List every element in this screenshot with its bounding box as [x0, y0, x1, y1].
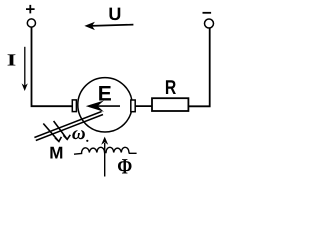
dot after omega [86, 140, 88, 142]
svg-text:M: M [49, 144, 63, 163]
svg-text:Φ: Φ [117, 154, 132, 179]
brush left of motor [72, 100, 76, 112]
torque arrow 2 on shaft [54, 121, 71, 139]
wire from resistor to - terminal [188, 28, 209, 106]
brush right of motor [131, 100, 135, 112]
flux arrow Phi (points up through winding) [101, 137, 108, 177]
svg-text:R: R [165, 77, 177, 99]
svg-text:I: I [7, 51, 17, 70]
inductor L1 field winding [74, 147, 137, 154]
wire from right brush to resistor R [135, 105, 152, 107]
wire from + terminal down and right to left brush [32, 27, 73, 106]
voltage arrow U (points left) [84, 22, 133, 30]
svg-text:ω: ω [72, 123, 86, 144]
svg-text:U: U [108, 4, 121, 24]
resistor R body [152, 98, 188, 111]
terminal - (negative supply terminal symbol) [203, 13, 214, 28]
EMF arrow E (points left inside motor) [86, 101, 120, 112]
motor M1 armature circle [78, 78, 132, 132]
terminal + (positive supply terminal symbol) [26, 5, 36, 27]
torque arrow 1 on shaft [43, 124, 61, 142]
current arrow I (points down) [22, 47, 28, 91]
motor shaft (double line, lower-left) [34, 112, 103, 141]
